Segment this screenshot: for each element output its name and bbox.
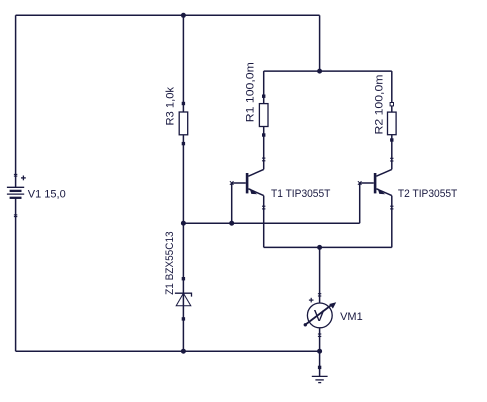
junction dot emitter rail (317, 245, 322, 250)
wire VM top (319, 247, 321, 303)
resistor R3 (179, 112, 188, 135)
svg-text:R1 100,0m: R1 100,0m (245, 62, 257, 122)
wire T1 emitter down (263, 196, 265, 248)
junction dot second rail (317, 69, 322, 74)
pin square ground (318, 366, 321, 369)
wire T1 base (232, 182, 246, 184)
voltmeter VM1 (304, 302, 337, 328)
pin ticks T1 collector (262, 158, 265, 161)
wire left rail lower (15, 198, 17, 351)
wire to ground (319, 351, 321, 376)
pin x T2 base (358, 181, 362, 185)
junction dot bottom rail at Z1 (181, 349, 186, 354)
svg-text:VM1: VM1 (340, 311, 363, 323)
resistor R2 (388, 112, 397, 135)
pin ticks VM top (318, 294, 321, 296)
pin square R3 top (182, 102, 185, 105)
pin ticks VM bottom (318, 334, 321, 336)
wire emitter rail (264, 246, 392, 248)
ground (312, 376, 328, 382)
transistor T1 (247, 169, 264, 195)
wire left rail upper (15, 15, 17, 187)
wire bottom rail (16, 350, 320, 352)
wire R2 top (391, 71, 393, 112)
svg-text:T1 TIP3055T: T1 TIP3055T (271, 188, 331, 200)
pin square R1 top (262, 95, 265, 98)
wire T2 base (360, 182, 374, 184)
resistor R1 (259, 104, 268, 127)
pin ticks T2 emitter (390, 206, 393, 209)
pin square R2 top hollow (390, 103, 393, 106)
junction dot top rail (181, 13, 186, 18)
wire second rail (264, 70, 392, 72)
wire VM bottom (319, 328, 321, 351)
pin square Z1 bottom (182, 317, 185, 320)
svg-text:R3 1,0k: R3 1,0k (164, 87, 176, 126)
pin square R2 bottom (390, 138, 393, 141)
wire R3 to base node (182, 135, 184, 223)
wire top rail (16, 14, 320, 16)
wire R3 column top (182, 15, 184, 112)
wire R2 to T2 collector (391, 135, 393, 170)
pin ticks T1 emitter (262, 206, 265, 209)
wire top right drop (319, 15, 321, 71)
svg-text:R2 100,0m: R2 100,0m (374, 75, 386, 135)
pin square Z1 top (182, 277, 185, 280)
zener diode Z1 (175, 293, 192, 306)
svg-text:V1 15,0: V1 15,0 (28, 189, 66, 201)
wire R1 top (263, 71, 265, 104)
wire base rail (183, 222, 359, 224)
wire R1 to T1 collector (263, 127, 265, 170)
junction dot bottom rail at VM (317, 349, 322, 354)
wire Z1 column (182, 223, 184, 351)
pin ticks T2 collector (390, 158, 393, 161)
wire T1 base riser (231, 183, 233, 223)
pin square R3 bottom (182, 142, 185, 145)
svg-text:Z1 BZX55C13: Z1 BZX55C13 (164, 231, 176, 295)
battery V1 (7, 174, 26, 216)
junction dot base node (181, 221, 186, 226)
plus sign VM (309, 298, 314, 303)
wire T2 base riser (359, 183, 361, 223)
pin square R1 bottom (262, 133, 265, 136)
svg-text:T2 TIP3055T: T2 TIP3055T (398, 188, 458, 200)
transistor T2 (375, 169, 392, 195)
pin x T1 base (230, 181, 234, 185)
junction dot T1 base tap (229, 221, 234, 226)
wire T2 emitter down (391, 196, 393, 248)
